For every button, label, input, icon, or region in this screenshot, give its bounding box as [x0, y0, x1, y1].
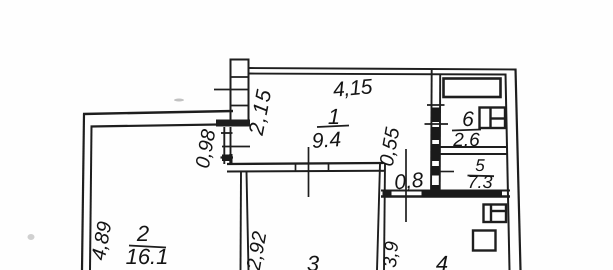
wire wall between room1 and room6 left line	[430, 69, 433, 196]
wire 0,98 dimension tick lower	[221, 156, 234, 158]
svg-text:4,15: 4,15	[332, 75, 374, 101]
wire descending wall below column right line	[230, 127, 232, 164]
svg-text:2.6: 2.6	[452, 130, 480, 151]
wire room3/room4 wall left line	[377, 164, 380, 270]
svg-text:3,9: 3,9	[380, 240, 403, 269]
wire room1 top wall upper line	[249, 68, 516, 70]
wire descending wall below column left line	[223, 127, 225, 164]
wire room2 top wall outer	[83, 111, 233, 114]
node shelf rectangle in room6	[444, 79, 501, 98]
wire room3/room4 wall right line	[384, 164, 385, 270]
node toilet in room4	[484, 205, 507, 223]
svg-text:16.1: 16.1	[126, 244, 169, 269]
node wall fill segment a	[431, 108, 440, 123]
wire tick in room5	[439, 171, 454, 173]
svg-text:0,8: 0,8	[393, 169, 425, 195]
svg-text:3: 3	[307, 251, 320, 270]
node faint scan smudge lower-left	[28, 234, 35, 240]
wire room2/room3 wall right line	[247, 172, 249, 270]
wire left inner wall	[90, 126, 92, 270]
node wall fill segment d	[431, 166, 440, 176]
svg-text:9.4: 9.4	[311, 128, 342, 153]
wire room1 top wall lower line	[249, 74, 506, 75]
svg-text:7.3: 7.3	[467, 172, 492, 192]
wire door jamb tick lower	[425, 123, 449, 125]
node water heater square in room4	[473, 231, 496, 251]
svg-text:6: 6	[462, 108, 474, 131]
wire room1/room3 wall upper line	[227, 163, 384, 164]
node wall junction fill under column	[216, 120, 250, 127]
wire fraction bar room2	[129, 246, 166, 248]
node room4 top wall fill left	[383, 190, 392, 198]
wire wall between room1 and room6 right line	[439, 74, 442, 197]
wire door jamb tick upper	[427, 104, 445, 106]
wire column internal tick A	[231, 76, 249, 78]
wire vertical dimension tick for 9,4 / 2,92	[308, 147, 310, 197]
wire dimension extension line lower for 2,15	[222, 146, 250, 148]
node dark blob at lower tick	[222, 155, 233, 162]
wire right outer wall	[516, 69, 521, 270]
node room4 top wall fill right	[422, 190, 503, 198]
wire room4 top wall upper line	[381, 190, 510, 192]
wire 0,98 dimension tick upper	[221, 132, 233, 134]
svg-text:2: 2	[136, 221, 149, 246]
wire room2 top wall inner	[91, 124, 251, 127]
node wall fill segment e	[431, 185, 440, 196]
wire fraction bar room5	[468, 175, 495, 178]
wire column internal tick C	[231, 105, 249, 107]
svg-text:1: 1	[328, 104, 340, 129]
wire left outer wall	[82, 114, 84, 270]
node column/pilaster at top	[231, 60, 249, 122]
svg-text:4: 4	[436, 251, 448, 270]
wire room6/room5 divider upper line	[440, 146, 507, 148]
node toilet in room6	[480, 108, 506, 129]
wire small connector tick a	[295, 164, 297, 172]
wire dimension extension line for 2,15	[214, 89, 249, 91]
node dark blob at descending wall foot	[229, 154, 232, 165]
wire fraction bar room6	[452, 130, 481, 131]
wire fraction bar room1	[317, 126, 349, 128]
wire small connector tick b	[328, 163, 330, 171]
wire right inner wall	[506, 74, 510, 270]
wire room1/room3 wall lower line	[227, 170, 385, 173]
wire vertical dimension tick for 0,8	[405, 149, 407, 222]
wire room2/room3 wall left line	[240, 172, 243, 270]
node wall fill segment c	[431, 144, 440, 161]
node wall fill segment b	[431, 127, 440, 140]
node faint scan smudge upper	[174, 99, 184, 102]
wire room4 top wall lower line	[381, 195, 510, 198]
wire room6/room5 divider lower line	[440, 153, 507, 155]
